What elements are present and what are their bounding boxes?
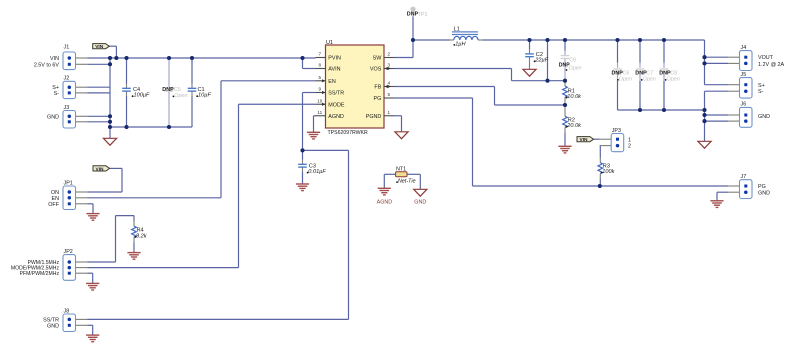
svg-text:S-: S- xyxy=(54,91,60,97)
svg-text:VIN: VIN xyxy=(50,56,59,62)
svg-text:PGND: PGND xyxy=(366,114,382,120)
svg-text:J6: J6 xyxy=(741,102,747,108)
svg-text:100k: 100k xyxy=(602,169,615,175)
svg-text:VOUT: VOUT xyxy=(758,55,774,61)
svg-text:GND: GND xyxy=(47,114,59,120)
svg-text:JP3: JP3 xyxy=(612,128,621,134)
svg-text:L1: L1 xyxy=(454,27,460,33)
svg-text:PVIN: PVIN xyxy=(328,56,341,62)
svg-text:FB: FB xyxy=(374,85,381,91)
svg-text:PG: PG xyxy=(374,96,382,102)
svg-text:SS/TR: SS/TR xyxy=(328,91,344,97)
svg-text:VIN: VIN xyxy=(96,166,105,172)
svg-text:U1: U1 xyxy=(326,40,333,46)
svg-text:J5: J5 xyxy=(741,72,747,78)
svg-text:DNP: DNP xyxy=(162,87,174,93)
svg-text:TP1: TP1 xyxy=(418,12,428,18)
svg-text:GND: GND xyxy=(758,190,770,196)
svg-text:3: 3 xyxy=(388,63,391,68)
svg-text:EN: EN xyxy=(328,79,336,85)
svg-text:PG: PG xyxy=(758,184,766,190)
svg-text:J3: J3 xyxy=(64,105,70,111)
svg-text:AGND: AGND xyxy=(328,114,344,120)
svg-text:J1: J1 xyxy=(64,44,70,50)
svg-text:S+: S+ xyxy=(758,83,765,89)
svg-text:GND: GND xyxy=(758,114,770,120)
svg-text:TPS62097RWKR: TPS62097RWKR xyxy=(328,130,369,136)
svg-text:100µF: 100µF xyxy=(134,93,151,99)
svg-text:10µF: 10µF xyxy=(198,93,211,99)
svg-text:Open: Open xyxy=(174,93,187,99)
svg-text:10: 10 xyxy=(317,98,323,103)
svg-text:Open: Open xyxy=(569,66,582,72)
svg-text:GND: GND xyxy=(47,323,59,329)
svg-text:8: 8 xyxy=(319,63,322,68)
svg-text:7: 7 xyxy=(319,52,322,57)
svg-text:C9: C9 xyxy=(569,58,576,64)
svg-text:Open: Open xyxy=(667,76,680,82)
svg-text:Open: Open xyxy=(643,76,656,82)
svg-text:9: 9 xyxy=(319,87,322,92)
svg-text:5: 5 xyxy=(388,92,391,97)
svg-text:22µF: 22µF xyxy=(534,58,548,64)
svg-text:1: 1 xyxy=(388,110,391,115)
svg-text:OFF: OFF xyxy=(48,202,59,208)
svg-text:AGND: AGND xyxy=(377,200,393,206)
svg-text:JP1: JP1 xyxy=(64,180,73,186)
svg-text:8.2k: 8.2k xyxy=(136,233,148,239)
svg-text:AVIN: AVIN xyxy=(328,67,340,73)
svg-text:2: 2 xyxy=(388,52,391,57)
svg-text:1µH: 1µH xyxy=(455,41,466,47)
svg-text:2.5V to 6V: 2.5V to 6V xyxy=(34,62,60,68)
svg-text:Net-Tie: Net-Tie xyxy=(398,179,416,185)
svg-text:PFM/PWM/2MHz: PFM/PWM/2MHz xyxy=(20,271,60,277)
svg-text:MODE: MODE xyxy=(328,102,345,108)
svg-text:NT1: NT1 xyxy=(396,167,406,173)
svg-text:VOS: VOS xyxy=(370,67,382,73)
svg-text:VIN: VIN xyxy=(580,137,589,143)
svg-text:Open: Open xyxy=(619,76,632,82)
svg-text:5: 5 xyxy=(319,75,322,80)
svg-text:1: 1 xyxy=(628,137,631,143)
svg-text:20.0k: 20.0k xyxy=(566,123,582,129)
svg-text:J2: J2 xyxy=(64,76,70,82)
svg-text:JP2: JP2 xyxy=(64,249,73,255)
svg-text:4: 4 xyxy=(388,81,391,86)
svg-text:J8: J8 xyxy=(64,308,70,314)
svg-text:SW: SW xyxy=(373,56,383,62)
svg-text:GND: GND xyxy=(414,200,426,206)
svg-text:J4: J4 xyxy=(741,45,747,51)
svg-text:1.2V @ 2A: 1.2V @ 2A xyxy=(758,62,785,68)
svg-text:2: 2 xyxy=(628,144,631,150)
svg-text:11: 11 xyxy=(317,110,322,115)
svg-text:VIN: VIN xyxy=(95,44,104,50)
svg-text:S-: S- xyxy=(758,89,764,95)
svg-text:J7: J7 xyxy=(741,174,747,180)
svg-text:0.01µF: 0.01µF xyxy=(308,169,326,175)
svg-text:10.0k: 10.0k xyxy=(567,94,582,100)
